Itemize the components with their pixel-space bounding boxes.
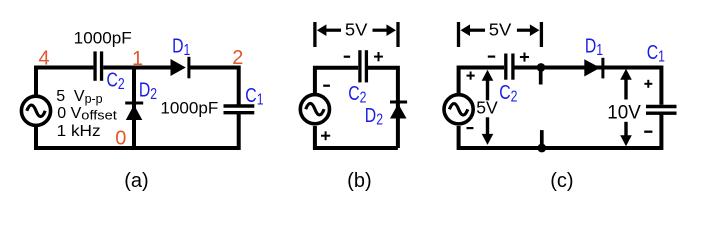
wire: (c) bottom rail from source bottom to C1 bottom plate (459, 115, 662, 149)
polarity plus above C2 (c) (520, 53, 529, 62)
diode D2 (b) (390, 102, 407, 119)
polarity plus at source (c) (467, 72, 475, 80)
polarity minus at source top (b) (323, 85, 330, 87)
polarity plus above C2 (b) (374, 52, 383, 61)
wire: (a) D2 branch node 1 to node 0 (132, 68, 136, 149)
svg-text:C2: C2 (107, 69, 125, 93)
svg-text:5V: 5V (345, 20, 368, 40)
measurement tick right (c) (540, 22, 543, 47)
wire: (a) C2 right plate to D1 anode (103, 66, 171, 70)
10V annotation arrow (c) (620, 69, 632, 147)
wire: (c) C2 right plate along top to right corner down to C1 top plate (515, 68, 662, 105)
AC source V1 (a) (21, 96, 50, 125)
svg-text:1: 1 (132, 48, 143, 70)
capacitor C2 (c) plates (506, 54, 513, 80)
measurement arrow left (c) (461, 24, 486, 36)
svg-text:5V: 5V (489, 20, 512, 40)
polarity plus at C1 (c) (644, 80, 652, 88)
diode D1 (c) (584, 58, 603, 79)
diode D1 (a) (171, 57, 189, 79)
svg-text:C2: C2 (348, 83, 366, 107)
svg-text:C1: C1 (245, 85, 263, 109)
wire: (b) top-left from source top to C2 left plate (315, 68, 358, 95)
diode D2 (a) (125, 103, 143, 120)
svg-text:2: 2 (232, 47, 243, 69)
AC source V1 (b) (300, 95, 329, 124)
measurement tick left (b) (313, 22, 316, 47)
capacitor C2 (a) plates (95, 51, 102, 80)
wire: (b) C2 right plate to top-right corner down right rail (368, 68, 398, 148)
wire: (c) top-left from source top to C2 left plate (459, 68, 505, 95)
wire: (a) bottom rail from source bottom around to C1 bottom plate (36, 114, 239, 148)
svg-text:1 kHz: 1 kHz (57, 123, 101, 140)
node junction dot bottom (c) (537, 144, 546, 153)
5V annotation arrow (c) (482, 70, 494, 145)
svg-text:C2: C2 (499, 82, 517, 106)
measurement arrow left (b) (317, 24, 341, 36)
svg-text:(a): (a) (124, 170, 148, 192)
svg-text:1000pF: 1000pF (74, 28, 132, 47)
wire: stub below top junction (c) (539, 67, 543, 84)
wire: (a) top-left from source top to C2 left plate (36, 68, 93, 97)
measurement arrow right (c) (517, 24, 540, 36)
wire: (b) bottom rail (315, 126, 398, 148)
measurement tick left (c) (457, 22, 460, 47)
svg-text:1000pF: 1000pF (160, 99, 218, 118)
svg-text:5V: 5V (476, 98, 498, 118)
wire: (a) D1 cathode to top-right corner down to C1 top plate (189, 68, 239, 105)
svg-text:D2: D2 (139, 79, 157, 103)
polarity minus above C2 (c) (488, 55, 495, 57)
polarity minus above C2 (b) (344, 56, 350, 58)
svg-text:C1: C1 (647, 42, 665, 66)
capacitor C2 (b) plates (360, 50, 367, 82)
svg-text:(c): (c) (550, 170, 573, 192)
capacitor C1 (c) plates (646, 107, 677, 114)
AC source V1 (c) (444, 95, 473, 124)
polarity minus at source (c) (467, 127, 474, 129)
svg-text:Vp-p: Vp-p (74, 88, 103, 106)
measurement arrow right (b) (373, 24, 397, 36)
svg-text:(b): (b) (347, 170, 371, 192)
svg-text:D2: D2 (365, 105, 383, 128)
svg-text:10V: 10V (607, 102, 641, 124)
wire: stub above bottom junction (c) (540, 130, 544, 148)
svg-text:0: 0 (115, 127, 126, 149)
measurement tick right (b) (396, 22, 399, 47)
svg-text:5: 5 (56, 88, 65, 105)
polarity minus at C1 (c) (644, 131, 652, 133)
polarity plus at source bottom (b) (321, 131, 330, 140)
svg-text:D1: D1 (585, 36, 603, 60)
svg-text:4: 4 (39, 47, 50, 69)
svg-text:0 Voffset: 0 Voffset (57, 105, 117, 123)
node junction dot top (c) (537, 63, 546, 72)
capacitor C1 (a) plates (224, 106, 255, 113)
svg-text:D1: D1 (172, 35, 190, 59)
